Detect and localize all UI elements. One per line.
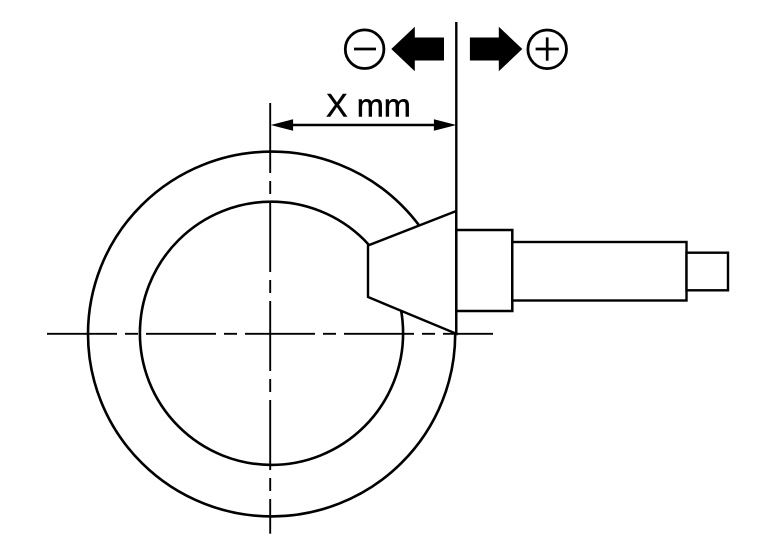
wheel inner circle (hub rim) [140,202,403,465]
svg-text:X mm: X mm [326,87,411,123]
vertical center line (dash-dot) [269,103,271,534]
dimension arrowhead right [434,119,456,131]
hub cone (white-filled, hides arcs behind it) [368,211,456,334]
dimension line X mm [290,124,437,127]
wheel outer circle [88,152,455,517]
horizontal center line (dash-dot) [47,333,493,335]
dimension arrowhead left [271,119,293,131]
swivel axis vertical line [455,22,457,335]
plus symbol circle [528,30,567,69]
plus symbol horizontal bar [536,48,559,51]
left direction arrow (solid) [391,27,444,71]
spindle tip rectangle [687,253,729,291]
minus symbol bar [354,48,376,51]
right direction arrow (solid) [470,27,522,71]
minus symbol circle [345,30,384,69]
spindle collar rectangle [456,230,512,311]
plus symbol vertical bar [546,37,549,60]
spindle shaft rectangle [512,242,686,301]
